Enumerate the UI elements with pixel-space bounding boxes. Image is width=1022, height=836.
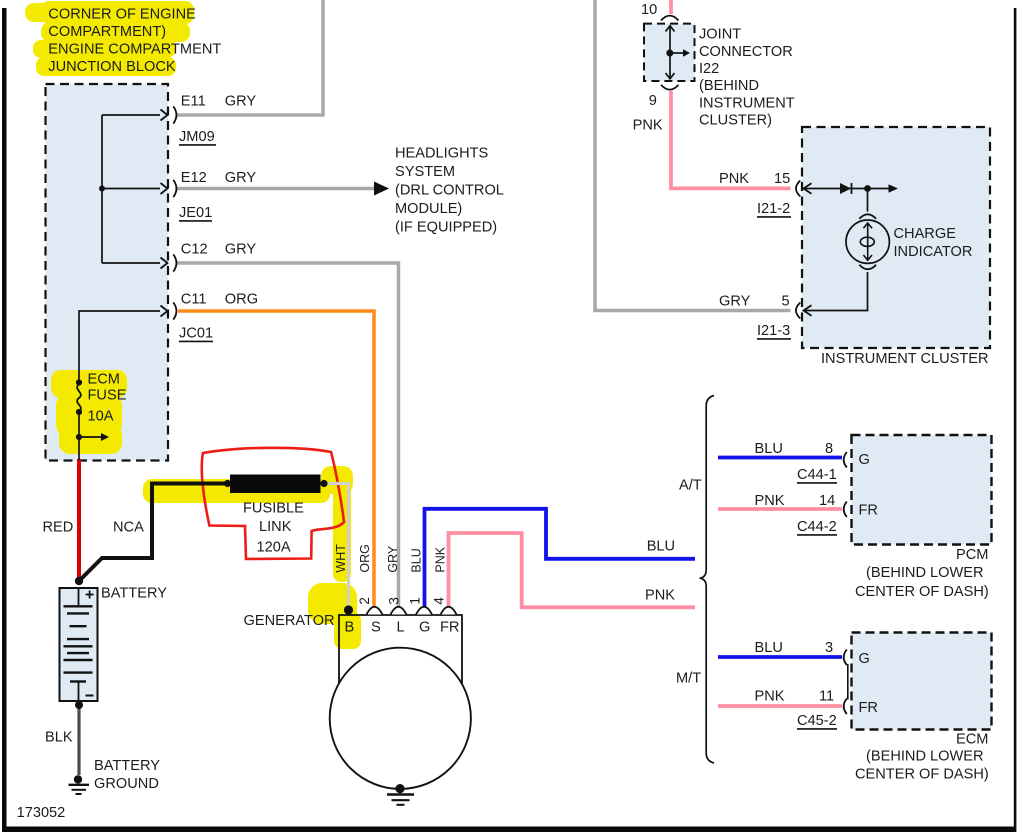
- label: PCM location: [855, 547, 989, 600]
- wire: GRY to instrument cluster I21-3: [595, 0, 791, 311]
- label: net I21-3: [757, 323, 791, 339]
- svg-text:CHARGE: CHARGE: [894, 226, 957, 242]
- charge indicator lamp: [846, 214, 889, 269]
- svg-text:11: 11: [819, 689, 834, 705]
- highlight: ECM fuse: [51, 370, 127, 454]
- svg-text:ECM: ECM: [956, 732, 988, 748]
- label: net C45-2: [797, 713, 837, 729]
- svg-text:1: 1: [408, 597, 423, 605]
- diode in instrument cluster: [840, 183, 852, 194]
- svg-text:PNK: PNK: [755, 493, 785, 509]
- node: battery positive terminal dot: [75, 577, 83, 585]
- svg-text:NCA: NCA: [113, 520, 144, 536]
- connector C45 joining bar: [847, 664, 849, 700]
- svg-text:15: 15: [774, 171, 790, 187]
- svg-text:ECM: ECM: [88, 372, 120, 388]
- connector C45 receptacle pin 3 G: [844, 650, 847, 666]
- svg-text:PNK: PNK: [755, 689, 785, 705]
- wire: C11 branch to ECM fuse: [79, 311, 160, 381]
- svg-text:GRY: GRY: [225, 242, 257, 258]
- label: headlights system destination: [395, 146, 504, 236]
- svg-text:INSTRUMENT CLUSTER: INSTRUMENT CLUSTER: [821, 351, 989, 367]
- connector C11 arrow and receptacle: [161, 302, 177, 319]
- svg-text:G: G: [859, 651, 870, 667]
- junction block box: [46, 84, 169, 461]
- svg-text:COMPARTMENT): COMPARTMENT): [48, 24, 166, 40]
- svg-text:S: S: [371, 620, 381, 636]
- label: PNK 11: [755, 689, 835, 705]
- svg-text:GRY: GRY: [386, 545, 400, 573]
- svg-text:MODULE): MODULE): [395, 201, 462, 217]
- generator body circle: [330, 648, 471, 789]
- svg-text:(DRL CONTROL: (DRL CONTROL: [395, 183, 504, 199]
- connector I21-2 receptacle pin 15: [796, 181, 812, 197]
- label: net C44-2: [797, 519, 837, 535]
- label: net JM09: [179, 129, 216, 145]
- label: CHARGE INDICATOR: [894, 226, 973, 260]
- svg-text:BATTERY: BATTERY: [101, 586, 167, 602]
- label: generator pin numbers 2 3 1 4: [357, 597, 447, 605]
- svg-text:BLU: BLU: [647, 539, 675, 555]
- wire: cluster internal from I21-2: [804, 188, 890, 190]
- node: fusible link left dot: [224, 480, 231, 487]
- svg-text:BLU: BLU: [410, 548, 424, 572]
- svg-text:SYSTEM: SYSTEM: [395, 164, 455, 180]
- page border left bar: [2, 8, 7, 832]
- label: wire colors WHT ORG GRY BLU PNK rotated: [334, 544, 448, 573]
- svg-text:PNK: PNK: [645, 588, 675, 604]
- svg-text:(IF EQUIPPED): (IF EQUIPPED): [395, 220, 497, 236]
- svg-text:CLUSTER): CLUSTER): [699, 113, 772, 129]
- node: charge indicator branch dot: [864, 185, 871, 192]
- svg-text:PNK: PNK: [434, 546, 448, 572]
- svg-text:3: 3: [825, 640, 833, 656]
- label: corner of engine compartment junction block: [48, 6, 221, 75]
- svg-text:PNK: PNK: [633, 118, 663, 134]
- PCM box: [852, 435, 992, 545]
- svg-text:JE01: JE01: [179, 205, 212, 221]
- svg-text:E11: E11: [181, 94, 206, 110]
- svg-text:BLU: BLU: [755, 441, 783, 457]
- svg-text:120A: 120A: [257, 540, 291, 556]
- svg-text:C44-1: C44-1: [797, 467, 837, 483]
- svg-text:PCM: PCM: [956, 547, 988, 563]
- svg-text:INDICATOR: INDICATOR: [894, 244, 973, 260]
- svg-text:C12: C12: [181, 242, 208, 258]
- svg-text:FR: FR: [859, 503, 878, 519]
- svg-text:JM09: JM09: [179, 129, 215, 145]
- svg-text:2: 2: [357, 597, 372, 605]
- wire: BLU A/T to PCM pin 8: [718, 456, 842, 460]
- svg-text:BATTERY: BATTERY: [94, 758, 160, 774]
- svg-text:FR: FR: [859, 700, 878, 716]
- svg-text:9: 9: [649, 93, 657, 109]
- label: FUSIBLE LINK 120A: [243, 501, 304, 556]
- ECM box: [852, 633, 992, 730]
- wire: junction block internal bus: [102, 115, 160, 263]
- battery symbol: [60, 588, 98, 701]
- connector C12 arrow and receptacle: [161, 254, 177, 271]
- label: PNK 15: [719, 171, 790, 187]
- svg-text:GRY: GRY: [225, 170, 257, 186]
- connector C44-1 receptacle pin 8 G: [844, 452, 847, 468]
- page border right line: [1014, 8, 1017, 832]
- ECM fuse 10A symbol: [76, 379, 109, 460]
- svg-text:8: 8: [825, 441, 833, 457]
- svg-text:I21-3: I21-3: [757, 323, 790, 339]
- svg-text:G: G: [859, 452, 870, 468]
- svg-text:173052: 173052: [17, 805, 66, 821]
- svg-text:(BEHIND LOWER: (BEHIND LOWER: [866, 565, 984, 581]
- svg-text:WHT: WHT: [334, 544, 348, 573]
- svg-text:C44-2: C44-2: [797, 519, 837, 535]
- red freehand loop around fusible link: [202, 448, 344, 559]
- label: generator pins B S L G FR: [345, 620, 460, 636]
- generator pin L receptacle: [391, 607, 407, 615]
- label: joint connector I22 text: [699, 27, 795, 129]
- wire: WHT generator B: [324, 484, 349, 609]
- generator pin G receptacle: [416, 607, 432, 615]
- svg-text:GRY: GRY: [719, 294, 751, 310]
- svg-text:14: 14: [819, 493, 835, 509]
- svg-text:10: 10: [641, 2, 657, 18]
- generator pin FR receptacle: [441, 607, 457, 615]
- arrow: cluster feed continues right: [889, 184, 899, 192]
- highlight: corner of engine compartment text: [25, 1, 194, 76]
- label: net JC01: [179, 326, 213, 342]
- node: generator ground dot: [395, 784, 404, 793]
- svg-text:PNK: PNK: [719, 171, 749, 187]
- wire: dot down to charge indicator: [867, 189, 869, 212]
- svg-text:G: G: [419, 620, 430, 636]
- battery ground symbol: [69, 775, 90, 794]
- label: ECM FUSE 10A: [88, 372, 127, 425]
- wire: BLU generator G to brace: [425, 509, 696, 607]
- label: net C44-1: [797, 467, 837, 483]
- svg-text:FUSIBLE: FUSIBLE: [243, 501, 304, 517]
- svg-text:FR: FR: [440, 620, 459, 636]
- svg-text:CENTER OF DASH): CENTER OF DASH): [855, 767, 989, 783]
- svg-text:BLU: BLU: [755, 640, 783, 656]
- svg-text:JUNCTION BLOCK: JUNCTION BLOCK: [48, 59, 176, 75]
- svg-text:E12: E12: [181, 170, 207, 186]
- label: pin E11 GRY: [181, 94, 257, 110]
- svg-text:GRY: GRY: [225, 94, 257, 110]
- wire: BLU M/T to ECM pin 3: [718, 655, 842, 659]
- instrument cluster box: [802, 127, 990, 348]
- svg-text:B: B: [345, 620, 355, 636]
- svg-text:10A: 10A: [88, 409, 114, 425]
- svg-text:5: 5: [782, 294, 790, 310]
- svg-text:FUSE: FUSE: [88, 388, 127, 404]
- generator ground symbol: [387, 795, 414, 805]
- joint connector I22 box: [644, 24, 695, 81]
- label: net JE01: [179, 205, 212, 221]
- svg-text:LINK: LINK: [259, 519, 292, 535]
- svg-text:I21-2: I21-2: [757, 201, 790, 217]
- label: net I21-2: [757, 201, 791, 217]
- connector E11 arrow and receptacle: [161, 106, 177, 123]
- svg-text:HEADLIGHTS: HEADLIGHTS: [395, 146, 489, 162]
- connector C44-2 receptacle pin 14 FR: [844, 502, 847, 518]
- connector E12 arrow and receptacle: [161, 180, 177, 197]
- svg-text:3: 3: [387, 597, 402, 605]
- svg-text:CORNER OF ENGINE: CORNER OF ENGINE: [48, 6, 196, 22]
- label: pin C11 ORG: [181, 292, 258, 308]
- svg-text:A/T: A/T: [679, 478, 702, 494]
- svg-text:I22: I22: [699, 61, 719, 77]
- svg-text:RED: RED: [43, 520, 74, 536]
- node: generator B terminal dot: [344, 605, 353, 614]
- svg-text:L: L: [397, 620, 405, 636]
- page border bottom bar: [6, 827, 1016, 833]
- label: ECM location: [855, 732, 989, 783]
- svg-text:(BEHIND LOWER: (BEHIND LOWER: [866, 749, 984, 765]
- svg-text:ENGINE COMPARTMENT: ENGINE COMPARTMENT: [48, 41, 221, 57]
- generator connector box: [339, 615, 462, 688]
- brace A/T M/T: [700, 396, 714, 764]
- svg-text:GENERATOR: GENERATOR: [244, 613, 335, 629]
- generator pin S receptacle: [367, 607, 383, 615]
- label: BATTERY GROUND: [94, 758, 160, 792]
- wire: PNK M/T to ECM pin 11: [718, 704, 842, 708]
- connector I21-3 receptacle pin 5: [796, 303, 812, 319]
- svg-text:CENTER OF DASH): CENTER OF DASH): [855, 584, 989, 600]
- node: junction dot E12 branch: [99, 186, 105, 192]
- label: GRY 5: [719, 294, 790, 310]
- svg-text:C45-2: C45-2: [797, 713, 837, 729]
- label: BLU 3: [755, 640, 834, 656]
- svg-text:GROUND: GROUND: [94, 776, 159, 792]
- node: battery negative terminal dot: [75, 701, 83, 709]
- wire: BLK battery ground: [77, 705, 80, 775]
- wire: E12 GRY gray to headlights: [177, 187, 374, 191]
- wire: E11 GRY gray to top: [177, 0, 323, 115]
- joint connector I22 internals: [661, 16, 690, 90]
- svg-text:JC01: JC01: [179, 326, 213, 342]
- svg-text:ORG: ORG: [358, 544, 372, 572]
- wire: charge indicator to I21-3: [804, 272, 868, 311]
- wire: PNK 9 joint connector to I21-2: [671, 91, 791, 188]
- svg-text:C11: C11: [181, 292, 207, 308]
- svg-text:ORG: ORG: [225, 292, 258, 308]
- wire: PNK generator FR to brace: [449, 533, 696, 607]
- svg-text:4: 4: [432, 597, 447, 605]
- wire: NCA black battery to fusible link: [79, 484, 227, 582]
- svg-text:M/T: M/T: [676, 671, 701, 687]
- highlight: fusible link band: [143, 466, 361, 649]
- label: pin C12 GRY: [181, 242, 257, 258]
- svg-text:CONNECTOR: CONNECTOR: [699, 44, 793, 60]
- node: fusible link right dot: [320, 480, 327, 487]
- label: BLU 8: [755, 441, 834, 457]
- svg-text:(BEHIND: (BEHIND: [699, 78, 759, 94]
- connector C45-2 receptacle pin 11 FR: [844, 699, 847, 715]
- label: pin E12 GRY: [181, 170, 257, 186]
- arrow to headlights system: [374, 182, 389, 196]
- wire: C11 ORG orange down to generator S: [178, 311, 374, 607]
- svg-text:BLK: BLK: [45, 730, 73, 746]
- wire: C12 GRY gray down to generator L: [177, 263, 399, 607]
- svg-text:JOINT: JOINT: [699, 27, 741, 43]
- wire: RED battery feed: [77, 459, 81, 581]
- label: PNK 14: [755, 493, 836, 509]
- wire: PNK from top to joint connector: [669, 0, 673, 14]
- fusible link 120A bar: [230, 475, 321, 494]
- wire: PNK A/T to PCM pin 14: [718, 507, 842, 511]
- svg-text:INSTRUMENT: INSTRUMENT: [699, 96, 795, 112]
